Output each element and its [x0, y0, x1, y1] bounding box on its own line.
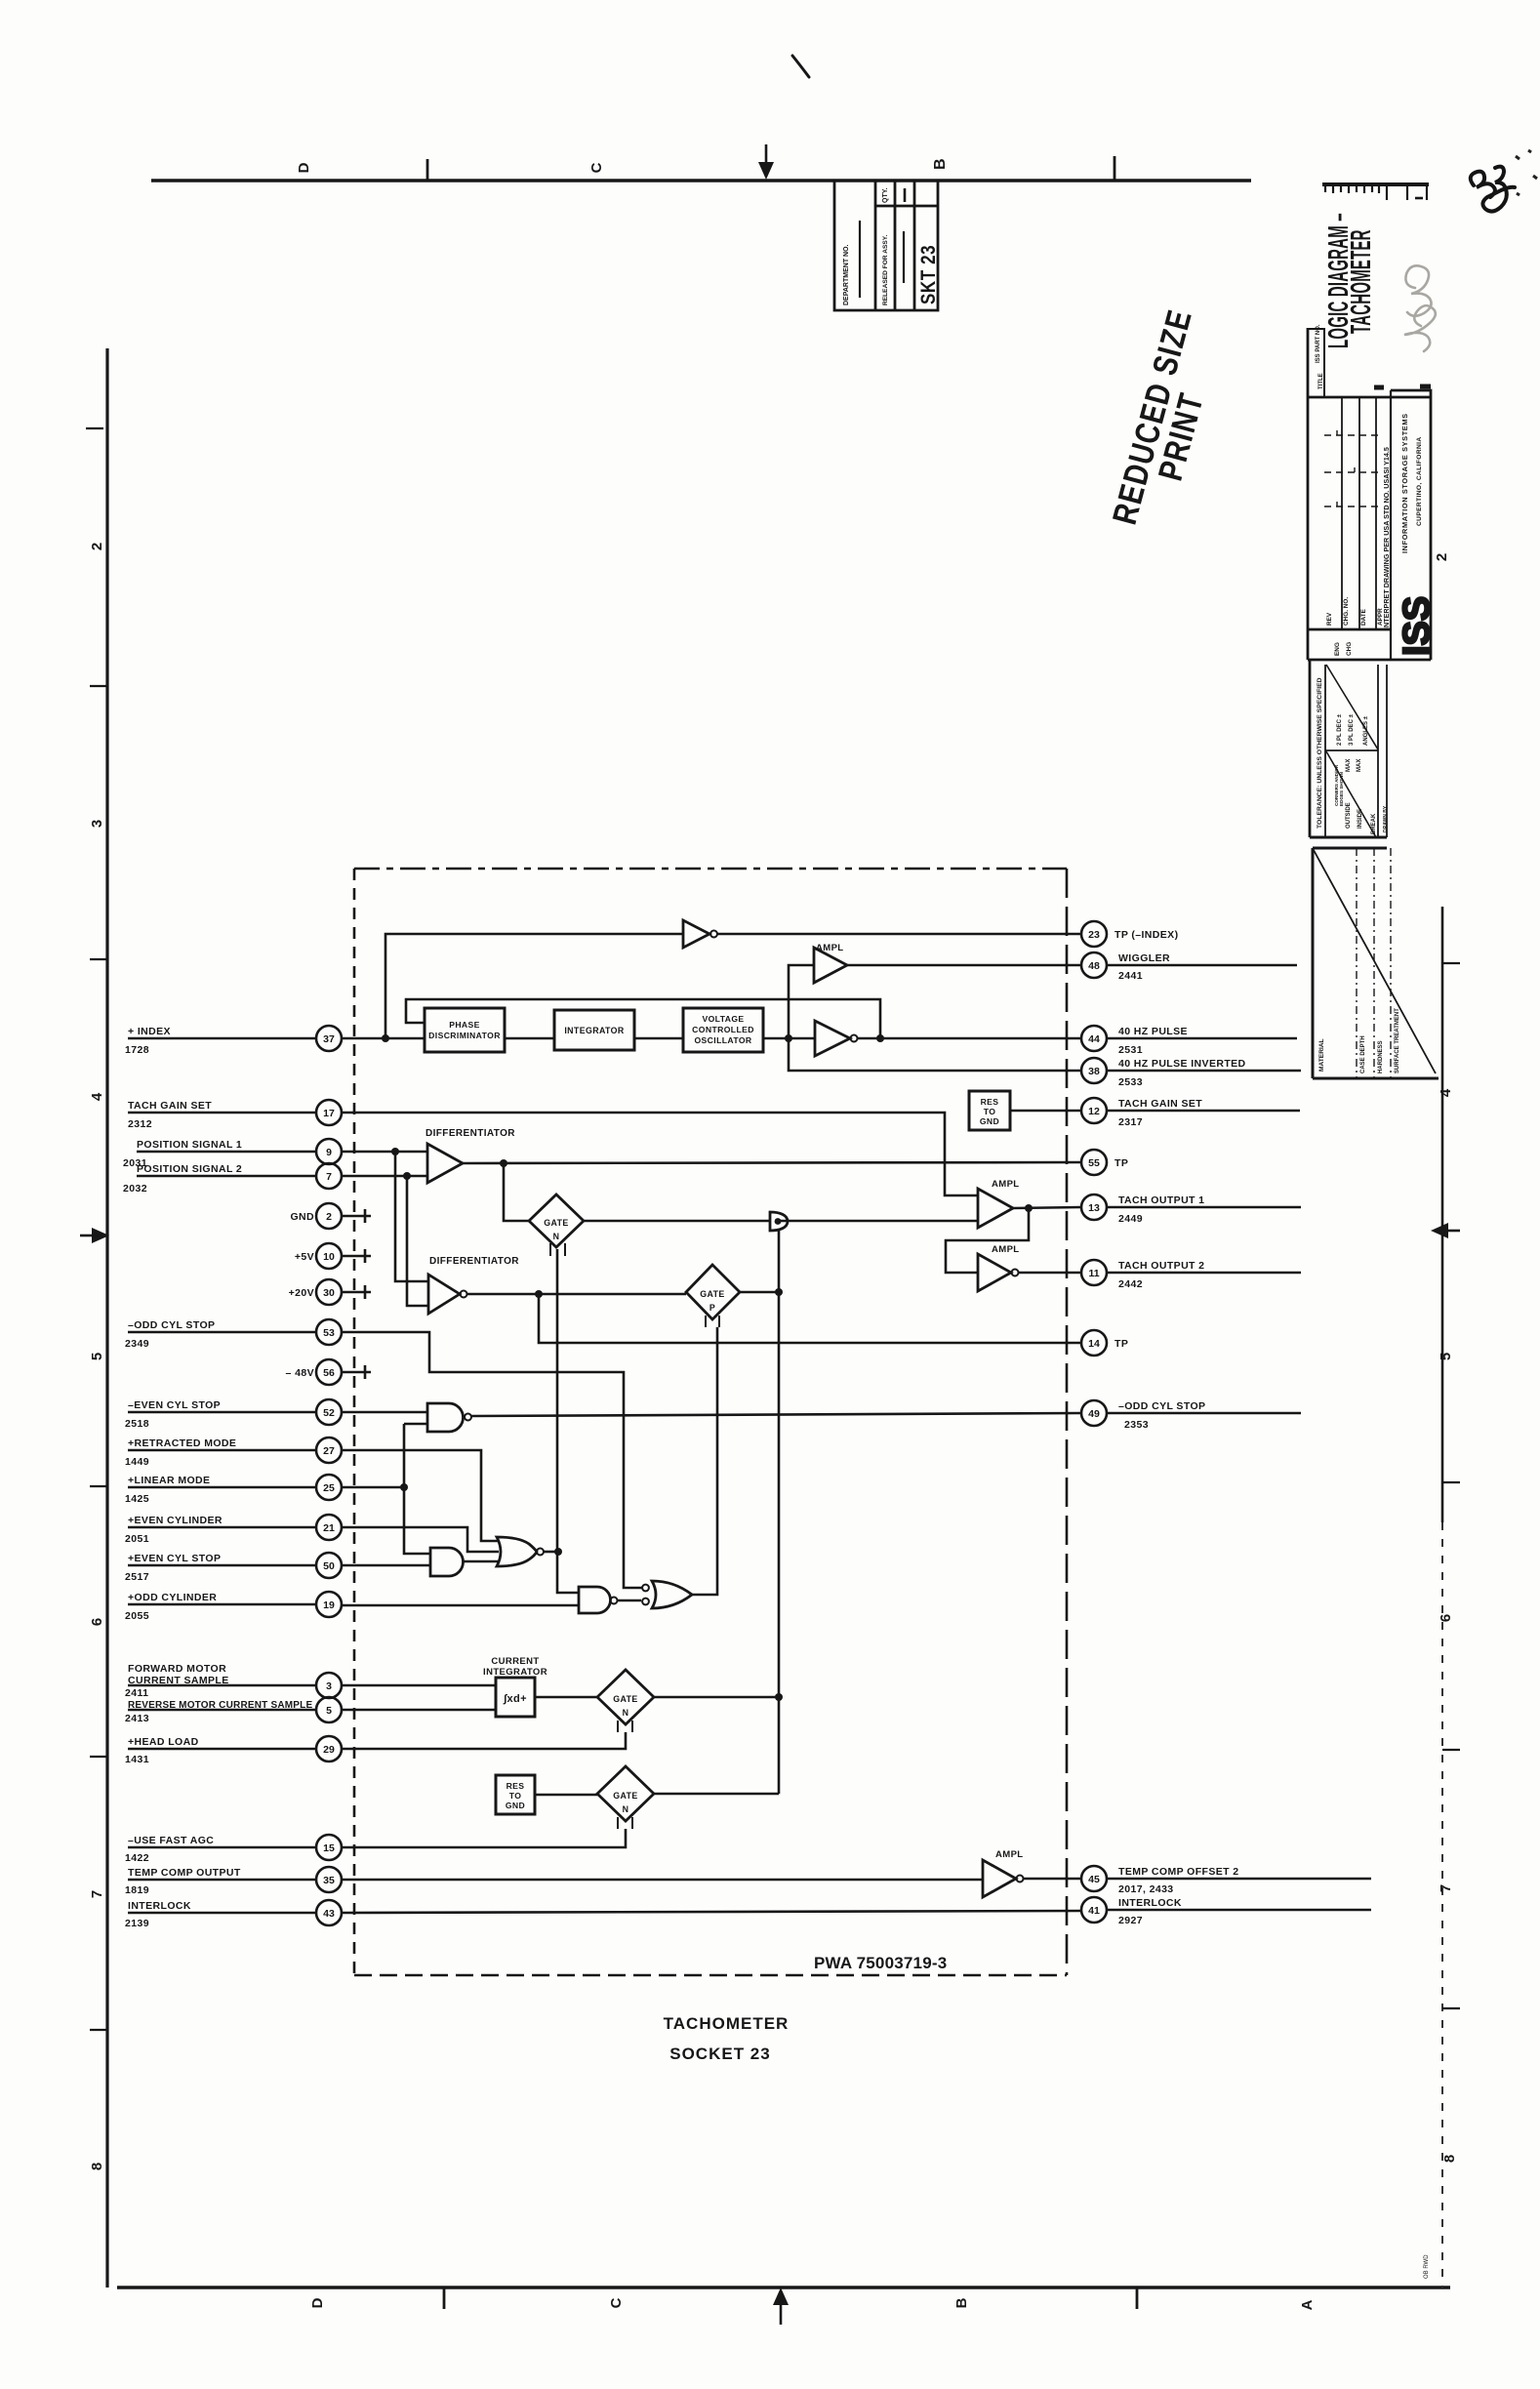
gate G1 GATE N diamond	[529, 1194, 584, 1247]
node D junction symbol	[770, 1212, 788, 1231]
pin 37 input	[316, 1026, 342, 1051]
wire +EVEN CYL STOP input	[128, 1564, 430, 1567]
svg-text:DATE: DATE	[1360, 608, 1367, 626]
svg-text:FORWARD MOTOR: FORWARD MOTOR	[128, 1663, 226, 1675]
svg-text:REV: REV	[1326, 612, 1333, 626]
svg-text:25: 25	[323, 1482, 335, 1494]
wire right border line	[1441, 907, 1444, 1522]
svg-text:GATE: GATE	[613, 1694, 637, 1704]
svg-text:2449: 2449	[1118, 1213, 1143, 1225]
svg-text:3: 3	[89, 820, 105, 828]
box PHASE DISCRIMINATOR	[425, 1008, 505, 1052]
svg-text:11: 11	[1088, 1268, 1099, 1279]
node right centering arrow	[1446, 1230, 1460, 1233]
svg-text:1728: 1728	[125, 1044, 149, 1056]
svg-text:50: 50	[323, 1560, 335, 1572]
pin 10 input	[316, 1243, 342, 1269]
wire NAND output to -ODD CYL STOP out	[471, 1413, 1081, 1416]
gate G6 NAND 2	[579, 1587, 611, 1613]
svg-text:15: 15	[323, 1842, 335, 1854]
svg-text:MATERIAL: MATERIAL	[1318, 1038, 1325, 1072]
svg-text:49: 49	[1088, 1408, 1100, 1420]
pin 19 input	[316, 1592, 342, 1617]
svg-text:2: 2	[1434, 553, 1450, 561]
svg-text:2017, 2433: 2017, 2433	[1118, 1883, 1174, 1895]
svg-text:TEMP COMP OFFSET 2: TEMP COMP OFFSET 2	[1118, 1866, 1239, 1878]
svg-text:AMPL: AMPL	[995, 1849, 1024, 1860]
svg-text:6: 6	[1438, 1614, 1454, 1622]
svg-text:OUTSIDE: OUTSIDE	[1346, 802, 1352, 829]
svg-text:∫xd+: ∫xd+	[503, 1693, 527, 1705]
svg-text:INTEGRATOR: INTEGRATOR	[564, 1026, 625, 1035]
node pencil 23 near title	[1404, 265, 1436, 351]
svg-text:HARDNESS: HARDNESS	[1378, 1040, 1384, 1073]
pin 21 input	[316, 1515, 342, 1540]
svg-text:TACH OUTPUT 2: TACH OUTPUT 2	[1118, 1260, 1204, 1272]
node right zone ticks	[1442, 962, 1460, 964]
node bottom zone tick 2	[1136, 2288, 1139, 2309]
svg-text:5: 5	[89, 1353, 105, 1360]
node qty value 1	[904, 188, 907, 202]
wire output extensions	[1107, 964, 1297, 967]
svg-text:55: 55	[1088, 1157, 1100, 1169]
wire +LINEAR MODE input	[128, 1486, 404, 1489]
svg-text:B: B	[932, 158, 949, 170]
svg-text:POSITION SIGNAL 1: POSITION SIGNAL 1	[137, 1139, 242, 1151]
pin 56 input	[316, 1359, 342, 1385]
svg-text:2312: 2312	[128, 1118, 152, 1130]
svg-text:7: 7	[1438, 1884, 1454, 1892]
wire -EVEN CYL STOP input	[128, 1411, 427, 1414]
pin 13 output	[1081, 1194, 1107, 1220]
svg-text:TP (–INDEX): TP (–INDEX)	[1114, 929, 1178, 941]
svg-text:2139: 2139	[125, 1918, 149, 1929]
svg-text:PWA 75003719-3: PWA 75003719-3	[814, 1954, 947, 1972]
svg-text:RES: RES	[981, 1097, 999, 1107]
svg-text:N: N	[623, 1708, 629, 1718]
pin 45 output	[1081, 1866, 1107, 1891]
svg-text:P: P	[709, 1303, 715, 1313]
svg-text:BREAK: BREAK	[1371, 813, 1377, 834]
pin 30 input	[316, 1279, 342, 1305]
svg-text:43: 43	[323, 1908, 335, 1920]
svg-text:N: N	[553, 1232, 560, 1241]
wire POSITION SIGNAL 1	[137, 1151, 427, 1154]
node stamp REDUCED SIZE PRINT	[1105, 304, 1232, 537]
svg-text:GND: GND	[506, 1801, 525, 1810]
pin 12 output	[1081, 1098, 1107, 1123]
wire -ODD CYL STOP input	[128, 1332, 642, 1588]
pin 38 output	[1081, 1058, 1107, 1083]
svg-text:OB RWD: OB RWD	[1424, 2254, 1430, 2279]
node tolerance diagonals	[1326, 665, 1378, 749]
svg-text:1425: 1425	[125, 1493, 149, 1505]
svg-text:2051: 2051	[125, 1533, 149, 1545]
pin 23 output	[1081, 921, 1107, 947]
pin 29 input	[316, 1736, 342, 1761]
svg-text:2927: 2927	[1118, 1915, 1143, 1926]
pin 9 input	[316, 1139, 342, 1164]
svg-text:CUPERTINO, CALIFORNIA: CUPERTINO, CALIFORNIA	[1416, 436, 1423, 526]
svg-text:2533: 2533	[1118, 1076, 1143, 1088]
pin 53 input	[316, 1319, 342, 1345]
svg-text:QTY.: QTY.	[882, 187, 889, 203]
pin 15 input	[316, 1835, 342, 1860]
svg-text:38: 38	[1088, 1066, 1100, 1077]
svg-text:INTERPRET DRAWING PER USA STD: INTERPRET DRAWING PER USA STD NO. USASI …	[1382, 447, 1391, 629]
svg-text:2441: 2441	[1118, 970, 1143, 982]
svg-text:GATE: GATE	[613, 1791, 637, 1801]
wire POSITION SIGNAL 2	[137, 1175, 427, 1178]
op-amp U3 AMPL wiggler	[814, 948, 847, 983]
wire +ODD CYLINDER input	[128, 1604, 579, 1605]
svg-text:D: D	[296, 162, 312, 173]
box INTEGRATOR	[554, 1010, 634, 1050]
op-amp U7 differentiator 2	[428, 1275, 460, 1314]
svg-text:1449: 1449	[125, 1456, 149, 1468]
pin 52 input	[316, 1399, 342, 1425]
wire +5V stub	[342, 1249, 371, 1263]
box RES TO GND lower	[496, 1775, 535, 1814]
gate G8 GATE N current	[597, 1670, 654, 1724]
node bottom centering arrow	[780, 2303, 783, 2325]
svg-text:19: 19	[323, 1599, 335, 1611]
wire +HEAD LOAD input	[128, 1732, 626, 1749]
wire NOR output up to gate P	[692, 1327, 717, 1595]
wire INTERLOCK through	[128, 1911, 1081, 1913]
svg-text:13: 13	[1088, 1202, 1100, 1214]
svg-text:SKT 23: SKT 23	[917, 245, 940, 304]
svg-text:TOLERANCE: UNLESS OTHERWISE SP: TOLERANCE: UNLESS OTHERWISE SPECIFIED	[1317, 677, 1323, 829]
svg-text:EDGES SHOWN: EDGES SHOWN	[1339, 771, 1344, 806]
wire +INDEX input	[128, 1037, 425, 1040]
svg-text:TACH GAIN SET: TACH GAIN SET	[128, 1100, 212, 1112]
svg-text:+HEAD LOAD: +HEAD LOAD	[128, 1736, 199, 1748]
svg-text:52: 52	[323, 1407, 335, 1419]
gate G2 GATE P diamond	[686, 1265, 740, 1319]
svg-text:23: 23	[1088, 929, 1100, 941]
svg-text:ISS: ISS	[1397, 596, 1438, 656]
svg-text:3: 3	[326, 1680, 332, 1692]
wire feedback to AMPL 2	[946, 1208, 1029, 1273]
svg-text:MAX: MAX	[1346, 759, 1352, 772]
op-amp U4 differentiator 1	[427, 1144, 463, 1183]
wire block chain	[505, 1037, 815, 1040]
svg-text:TO: TO	[984, 1107, 996, 1116]
wire diff1 output to TP 55	[463, 1162, 1081, 1163]
svg-text:53: 53	[323, 1327, 335, 1339]
svg-text:CASE DEPTH: CASE DEPTH	[1360, 1035, 1366, 1073]
box VOLTAGE CONTROLLED OSCILLATOR	[683, 1008, 763, 1052]
svg-text:41: 41	[1088, 1905, 1100, 1917]
svg-text:PHASE: PHASE	[449, 1020, 480, 1030]
pin 44 output	[1081, 1026, 1107, 1051]
node top zone tick 2	[1114, 156, 1116, 181]
svg-text:21: 21	[323, 1522, 335, 1534]
node top zone tick 1	[426, 159, 429, 181]
svg-text:2411: 2411	[125, 1687, 148, 1699]
svg-text:5: 5	[326, 1705, 332, 1717]
pin 11 output	[1081, 1260, 1107, 1285]
pin 14 output	[1081, 1330, 1107, 1356]
node rev table column lines	[1341, 397, 1343, 629]
svg-text:5: 5	[1438, 1353, 1454, 1360]
svg-text:INFORMATION STORAGE SYSTEMS: INFORMATION STORAGE SYSTEMS	[1400, 413, 1409, 553]
svg-text:VOLTAGE: VOLTAGE	[702, 1014, 744, 1024]
svg-text:2 PL DEC ±: 2 PL DEC ±	[1337, 713, 1343, 746]
svg-text:TACH OUTPUT 1: TACH OUTPUT 1	[1118, 1194, 1204, 1206]
svg-text:TACHOMETER: TACHOMETER	[664, 2014, 790, 2033]
wire diff2 to TP 14	[539, 1294, 1081, 1343]
svg-text:2032: 2032	[123, 1183, 147, 1194]
svg-text:GATE: GATE	[700, 1289, 724, 1299]
svg-text:2442: 2442	[1118, 1278, 1143, 1290]
svg-text:ANGLES ±: ANGLES ±	[1363, 715, 1369, 746]
wire wiggler amp input	[789, 965, 814, 1038]
svg-text:2: 2	[89, 543, 105, 550]
svg-text:AMPL: AMPL	[992, 1179, 1020, 1190]
pin 5 input	[316, 1697, 342, 1722]
node PWA dashed boundary box	[353, 869, 356, 1975]
pin 41 output	[1081, 1897, 1107, 1923]
gate G7 NOR with inverted inputs	[652, 1581, 692, 1608]
svg-text:2518: 2518	[125, 1418, 149, 1430]
node SKT23 release table box	[834, 181, 938, 310]
svg-text:+EVEN CYL STOP: +EVEN CYL STOP	[128, 1553, 221, 1564]
svg-text:D: D	[309, 2297, 326, 2308]
svg-text:DIFFERENTIATOR: DIFFERENTIATOR	[429, 1256, 519, 1267]
node part no field dashes	[1374, 385, 1384, 390]
svg-text:+LINEAR MODE: +LINEAR MODE	[128, 1475, 210, 1486]
svg-text:AMPL: AMPL	[816, 943, 844, 953]
wire diff1 to gate N	[504, 1163, 529, 1221]
box CURRENT INTEGRATOR	[496, 1678, 535, 1717]
svg-text:–ODD CYL STOP: –ODD CYL STOP	[1118, 1400, 1205, 1412]
wire FORWARD MOTOR CURRENT SAMPLE	[128, 1684, 496, 1687]
svg-text:TEMP COMP OUTPUT: TEMP COMP OUTPUT	[128, 1867, 241, 1879]
svg-text:7: 7	[326, 1171, 332, 1183]
svg-text:+ODD CYLINDER: +ODD CYLINDER	[128, 1592, 217, 1603]
svg-text:3 PL DEC ±: 3 PL DEC ±	[1349, 713, 1355, 746]
svg-text:TP: TP	[1114, 1157, 1128, 1169]
gate G4 AND	[430, 1548, 463, 1576]
wire +RETRACTED MODE input	[128, 1450, 499, 1541]
svg-text:MAX: MAX	[1357, 759, 1362, 772]
svg-text:SOCKET 23: SOCKET 23	[669, 2045, 770, 2063]
svg-text:2349: 2349	[125, 1338, 149, 1350]
svg-text:CHG: CHG	[1346, 642, 1353, 656]
svg-text:2353: 2353	[1124, 1419, 1149, 1431]
op-amp U5 AMPL tach output 1	[978, 1189, 1013, 1228]
wire 40hz inverted tap	[789, 1038, 1081, 1071]
svg-text:+EVEN CYLINDER: +EVEN CYLINDER	[128, 1515, 223, 1526]
svg-text:DRAWN BY: DRAWN BY	[1383, 805, 1389, 832]
wire TACH GAIN SET input	[128, 1113, 978, 1195]
svg-text:7: 7	[89, 1890, 105, 1898]
svg-text:INTEGRATOR: INTEGRATOR	[483, 1667, 547, 1678]
svg-text:C: C	[608, 2297, 625, 2308]
wire diff2 output	[467, 1293, 686, 1296]
svg-text:1422: 1422	[125, 1852, 149, 1864]
wire -48V stub	[342, 1365, 371, 1379]
pin 35 input	[316, 1867, 342, 1892]
svg-text:–EVEN CYL STOP: –EVEN CYL STOP	[128, 1399, 221, 1411]
svg-text:30: 30	[323, 1287, 335, 1299]
svg-text:12: 12	[1088, 1106, 1100, 1117]
svg-text:ISS PART NO.: ISS PART NO.	[1316, 324, 1321, 363]
svg-text:10: 10	[323, 1251, 335, 1263]
box RES TO GND upper	[969, 1091, 1010, 1130]
svg-text:8: 8	[89, 2163, 105, 2170]
svg-text:AMPL: AMPL	[992, 1244, 1020, 1255]
svg-text:GND: GND	[290, 1211, 314, 1223]
op-amp U6 AMPL tach output 2	[978, 1254, 1011, 1291]
svg-text:2517: 2517	[125, 1571, 149, 1583]
svg-text:B: B	[953, 2297, 970, 2308]
svg-text:2055: 2055	[125, 1610, 149, 1622]
node material box	[1313, 847, 1387, 850]
svg-text:CURRENT SAMPLE: CURRENT SAMPLE	[128, 1675, 229, 1686]
svg-text:2317: 2317	[1118, 1116, 1143, 1128]
gate G5 NOR 3-input	[497, 1537, 537, 1566]
pin 49 output	[1081, 1400, 1107, 1426]
svg-text:INTERLOCK: INTERLOCK	[1118, 1897, 1182, 1909]
svg-text:2531: 2531	[1118, 1044, 1143, 1056]
wire left border line	[105, 348, 108, 2288]
svg-text:TACHOMETER: TACHOMETER	[1345, 229, 1377, 334]
svg-text:DEPARTMENT NO.: DEPARTMENT NO.	[843, 244, 850, 305]
wire REVERSE MOTOR CURRENT SAMPLE	[128, 1709, 496, 1712]
svg-text:A: A	[1299, 2299, 1316, 2310]
svg-text:INSIDE: INSIDE	[1358, 809, 1363, 829]
node left zone ticks	[86, 427, 103, 429]
svg-text:40 HZ PULSE INVERTED: 40 HZ PULSE INVERTED	[1118, 1058, 1246, 1070]
wire +20V stub	[342, 1285, 371, 1299]
svg-text:1431: 1431	[125, 1754, 149, 1765]
node ISS logo company box	[1391, 390, 1431, 660]
svg-text:2413: 2413	[125, 1713, 149, 1724]
svg-text:29: 29	[323, 1744, 335, 1756]
wire +EVEN CYLINDER input	[128, 1527, 499, 1552]
wire top border line	[151, 179, 1251, 182]
wire NAND lower input from +LINEAR	[404, 1424, 430, 1554]
pin 50 input	[316, 1553, 342, 1578]
svg-text:REVERSE MOTOR CURRENT SAMPLE: REVERSE MOTOR CURRENT SAMPLE	[128, 1700, 312, 1711]
svg-text:35: 35	[323, 1875, 335, 1886]
wire TEMP COMP OUTPUT input	[128, 1879, 983, 1882]
node top centering arrow	[765, 144, 768, 166]
node tolerance box	[1309, 660, 1312, 837]
svg-text:C: C	[588, 162, 605, 173]
wire PS verticals to diff2	[395, 1152, 428, 1306]
node stray pen stroke top centre	[792, 56, 809, 77]
wire VCO feedback to phase discriminator	[406, 999, 880, 1038]
svg-text:37: 37	[323, 1033, 335, 1045]
op-amp U8 AMPL temp comp	[983, 1860, 1016, 1897]
svg-text:4: 4	[89, 1092, 105, 1101]
node title block frame	[1307, 328, 1310, 660]
svg-text:–USE FAST AGC: –USE FAST AGC	[128, 1835, 214, 1846]
svg-text:INTERLOCK: INTERLOCK	[128, 1900, 191, 1912]
gate G3 NAND	[427, 1403, 463, 1432]
gate G9 GATE N agc	[597, 1766, 654, 1821]
node handwritten 23 top corner	[1471, 167, 1515, 212]
svg-text:45: 45	[1088, 1874, 1100, 1885]
pin 27 input	[316, 1437, 342, 1463]
svg-text:2: 2	[326, 1211, 332, 1223]
pin 2 input	[316, 1203, 342, 1229]
svg-text:DISCRIMINATOR: DISCRIMINATOR	[428, 1031, 501, 1040]
svg-text:6: 6	[89, 1618, 105, 1626]
wire gate N1 control chain	[557, 1249, 579, 1593]
svg-text:1819: 1819	[125, 1884, 149, 1896]
svg-text:RELEASED FOR ASSY.: RELEASED FOR ASSY.	[882, 235, 889, 305]
svg-text:TACH GAIN SET: TACH GAIN SET	[1118, 1098, 1202, 1110]
pin 17 input	[316, 1100, 342, 1125]
svg-text:N: N	[623, 1804, 629, 1814]
svg-text:8: 8	[1441, 2155, 1458, 2163]
svg-text:RES: RES	[507, 1781, 525, 1791]
svg-text:CHG. NO.: CHG. NO.	[1343, 597, 1350, 626]
svg-text:4: 4	[1438, 1088, 1454, 1097]
node left centering arrow	[80, 1235, 94, 1237]
node margin ruler top right	[1322, 184, 1429, 200]
svg-text:SURFACE TREATMENT: SURFACE TREATMENT	[1395, 1008, 1400, 1073]
svg-text:GATE: GATE	[544, 1218, 568, 1228]
svg-text:14: 14	[1088, 1338, 1100, 1350]
wire -USE FAST AGC input	[128, 1829, 626, 1847]
svg-text:56: 56	[323, 1367, 335, 1379]
svg-text:DIFFERENTIATOR: DIFFERENTIATOR	[426, 1128, 515, 1139]
pin 25 input	[316, 1475, 342, 1500]
svg-text:44: 44	[1088, 1033, 1100, 1045]
pin 7 input	[316, 1163, 342, 1189]
node department no fill line	[859, 221, 861, 298]
node rev table entry dashes	[1324, 434, 1378, 436]
svg-text:WIGGLER: WIGGLER	[1118, 952, 1170, 964]
svg-text:+ INDEX: + INDEX	[128, 1026, 171, 1037]
svg-text:OSCILLATOR: OSCILLATOR	[694, 1035, 751, 1045]
wire main vertical bus x798	[778, 1231, 781, 1794]
svg-text:+RETRACTED MODE: +RETRACTED MODE	[128, 1437, 236, 1449]
svg-text:9: 9	[326, 1147, 332, 1158]
svg-text:TO: TO	[509, 1791, 522, 1801]
svg-text:TITLE: TITLE	[1318, 373, 1324, 389]
pin 55 output	[1081, 1150, 1107, 1175]
node material diagonal	[1314, 850, 1436, 1073]
svg-text:+5V: +5V	[295, 1251, 314, 1263]
svg-text:40 HZ PULSE: 40 HZ PULSE	[1118, 1026, 1188, 1037]
pin 48 output	[1081, 952, 1107, 978]
svg-text:ENG: ENG	[1334, 642, 1341, 656]
svg-text:27: 27	[323, 1445, 335, 1457]
svg-text:CURRENT: CURRENT	[491, 1656, 539, 1667]
pin 43 input	[316, 1900, 342, 1925]
wire to TP-INDEX inverter	[385, 934, 683, 1038]
node bottom zone tick 1	[443, 2288, 446, 2309]
inverter U1 TP-INDEX	[683, 920, 709, 948]
svg-text:17: 17	[323, 1108, 335, 1119]
svg-text:48: 48	[1088, 960, 1100, 972]
svg-text:TP: TP	[1114, 1338, 1128, 1350]
svg-text:– 48V: – 48V	[286, 1367, 314, 1379]
svg-text:GND: GND	[980, 1116, 999, 1126]
pin 3 input	[316, 1673, 342, 1698]
svg-text:–ODD CYL STOP: –ODD CYL STOP	[128, 1319, 215, 1331]
wire bottom border line	[117, 2286, 1450, 2289]
inverter U2 40HZ	[815, 1021, 850, 1056]
svg-text:+20V: +20V	[289, 1287, 314, 1299]
